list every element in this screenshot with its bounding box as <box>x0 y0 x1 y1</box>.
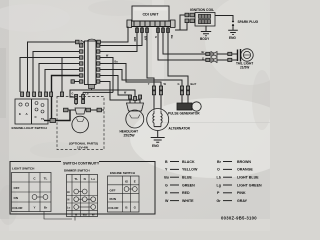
dimmer switch table <box>67 175 98 217</box>
wire optional lamp 2 branch <box>83 92 113 104</box>
svg-text:ENGINE SWITCH: ENGINE SWITCH <box>110 171 136 175</box>
svg-text:YELLOW: YELLOW <box>182 168 198 172</box>
svg-text:Bu: Bu <box>164 176 169 180</box>
legend row red <box>165 191 246 195</box>
light switch table <box>12 173 52 212</box>
svg-text:Y: Y <box>33 206 35 210</box>
wire bus row 4 <box>39 64 79 93</box>
spark plug gap <box>232 20 234 30</box>
svg-text:LIGHT BLUE: LIGHT BLUE <box>237 176 259 180</box>
svg-text:25/25W: 25/25W <box>124 134 135 138</box>
svg-text:PULSE GENERATOR: PULSE GENERATOR <box>168 112 200 116</box>
headlight label <box>120 130 139 138</box>
tail light bulb <box>238 49 254 62</box>
wire bus row 6 <box>52 76 80 122</box>
fuse F1 <box>87 39 96 44</box>
svg-text:O: O <box>217 168 220 172</box>
switch block pins <box>21 92 53 97</box>
svg-text:PINK: PINK <box>237 191 246 195</box>
alternator G1 <box>147 109 169 131</box>
wire strip r4 to alternator <box>100 64 161 87</box>
CDI connector bar <box>127 20 175 28</box>
legend row yellow <box>165 168 253 172</box>
alternator pins <box>152 86 162 95</box>
optional lamp pins <box>75 95 85 104</box>
tail pin c <box>228 52 232 55</box>
svg-text:E: E <box>134 180 136 184</box>
svg-text:LIGHT GREEN: LIGHT GREEN <box>237 183 262 187</box>
svg-text:BROWN: BROWN <box>237 160 251 164</box>
wire coil to spark plug <box>215 16 233 21</box>
strip row7 stub pin <box>71 80 74 83</box>
tee pin right a <box>86 108 91 112</box>
ground ENG (spark plug) <box>228 30 238 40</box>
svg-text:IGNITION COIL: IGNITION COIL <box>190 8 214 12</box>
svg-text:Lo: Lo <box>67 206 71 210</box>
fuse wire to CDI <box>28 27 129 93</box>
legend row white <box>165 199 248 203</box>
svg-text:12V-4W: 12V-4W <box>77 146 88 150</box>
connector strip right pins <box>97 44 100 83</box>
CDI pin 5 <box>162 28 165 33</box>
svg-text:G: G <box>177 82 179 86</box>
svg-text:R: R <box>165 191 168 195</box>
svg-text:TL: TL <box>44 177 48 181</box>
svg-text:Gr: Gr <box>217 199 222 203</box>
svg-text:Lo: Lo <box>91 177 95 181</box>
wire bus row 5 <box>45 70 79 93</box>
svg-text:Bu: Bu <box>170 35 174 39</box>
svg-text:G: G <box>165 183 168 187</box>
wire CDI pin4 to tail light lower <box>158 27 206 61</box>
svg-text:G: G <box>154 36 158 38</box>
wire strip tab to headlight mid <box>92 90 136 98</box>
wire CDI pin5 to tail light upper <box>163 27 206 55</box>
svg-text:E: E <box>19 112 21 116</box>
CDI unit box <box>132 6 169 21</box>
svg-text:0030Z-9B5-3100: 0030Z-9B5-3100 <box>221 216 257 221</box>
optional parts dashed box <box>57 97 104 150</box>
fuse pin left <box>76 40 80 44</box>
ignition coil pin a <box>185 13 189 17</box>
wire coil to body ground <box>205 26 207 32</box>
strip row7 left stub <box>73 81 79 83</box>
wire CDI to ignition coil <box>175 15 187 30</box>
fuse pin right <box>97 40 101 44</box>
kill wire vertical <box>61 58 63 93</box>
wire CDI pin3 to alternator <box>147 27 154 87</box>
wire alternator to ground <box>157 131 159 138</box>
legend row black <box>165 160 251 164</box>
svg-text:RED: RED <box>182 191 190 195</box>
svg-text:ENG: ENG <box>152 144 159 148</box>
wire CDI pin6 to pulse generator <box>168 27 188 87</box>
svg-text:SWITCH CONTINUITY: SWITCH CONTINUITY <box>63 161 100 165</box>
wire strip r3 branch down <box>100 58 113 93</box>
connector strip left pins <box>80 44 83 83</box>
svg-text:COLOR: COLOR <box>108 206 118 210</box>
svg-text:SPARK PLUG: SPARK PLUG <box>238 20 259 24</box>
svg-text:Lg: Lg <box>217 183 221 187</box>
svg-text:CDI UNIT: CDI UNIT <box>143 13 160 17</box>
wire tail connector to bulb <box>217 54 228 60</box>
tail pin d <box>228 58 232 61</box>
svg-text:ORANGE: ORANGE <box>237 168 253 172</box>
connector strip J1 <box>85 41 97 89</box>
svg-text:RUN: RUN <box>110 197 117 201</box>
optional lamp tee wire <box>64 109 104 111</box>
tail light label <box>236 62 253 70</box>
ground ENG (alternator) <box>151 138 165 149</box>
svg-text:ON: ON <box>14 196 19 200</box>
wire bus row 2 <box>33 52 79 93</box>
wire strip tab to optional lamp <box>70 89 92 106</box>
tail connector arrows <box>211 52 218 63</box>
pulse generator P1 <box>177 102 201 111</box>
fuse connector arrow <box>81 40 85 44</box>
svg-text:Bu/Y: Bu/Y <box>191 82 197 86</box>
legend row green <box>165 183 262 187</box>
svg-text:GREEN: GREEN <box>182 183 195 187</box>
svg-text:Br: Br <box>202 50 205 54</box>
kill wire pin <box>60 92 63 97</box>
svg-text:B/Y: B/Y <box>144 36 148 41</box>
tee pin left a <box>64 108 69 112</box>
svg-text:DIMMER SWITCH: DIMMER SWITCH <box>64 169 90 173</box>
ignition coil pin b <box>185 19 189 23</box>
headlight bulb <box>126 99 144 128</box>
wire block to optional lamp tee <box>56 110 71 121</box>
svg-text:N: N <box>68 198 70 202</box>
svg-text:Bu: Bu <box>83 213 87 217</box>
svg-text:COLOR: COLOR <box>12 206 22 210</box>
svg-text:ENGINE·LIGHT SWITCH: ENGINE·LIGHT SWITCH <box>12 126 48 130</box>
ignition coil T1 <box>195 13 215 27</box>
wire strip r6 to headlight left <box>100 76 130 98</box>
svg-text:G: G <box>202 56 204 60</box>
headlight pins <box>129 95 142 101</box>
svg-text:OFF: OFF <box>110 189 116 193</box>
svg-text:G: G <box>72 93 74 96</box>
wire CDI pin2 to connector row1 <box>100 27 142 46</box>
svg-text:LIGHT SWITCH: LIGHT SWITCH <box>12 167 35 171</box>
wire bus row 3 <box>20 58 79 93</box>
CDI pin 2 <box>141 28 144 33</box>
svg-text:Y: Y <box>148 82 150 86</box>
svg-text:W: W <box>165 199 169 203</box>
svg-text:BLUE: BLUE <box>182 176 192 180</box>
svg-text:W: W <box>92 213 95 217</box>
svg-text:N: N <box>84 177 86 181</box>
svg-text:21/5W: 21/5W <box>240 66 249 70</box>
pulse generator pins <box>180 86 189 95</box>
svg-text:OFF: OFF <box>14 186 20 190</box>
svg-text:ENG: ENG <box>229 36 236 40</box>
wire CDI pin1 to connector row2 <box>100 27 137 52</box>
switch continuity outer box <box>10 161 155 214</box>
wire strip r5 to pulse generator <box>100 70 182 87</box>
CDI pin 3 <box>146 28 149 33</box>
svg-text:GRAY: GRAY <box>237 199 248 203</box>
svg-text:BODY: BODY <box>200 37 210 41</box>
tail connector pin upper <box>206 52 210 55</box>
leader line tables <box>44 212 75 221</box>
tee pin right b <box>97 108 102 112</box>
svg-text:TL: TL <box>74 177 78 181</box>
svg-text:ALTERNATOR: ALTERNATOR <box>169 127 191 131</box>
svg-text:WHITE: WHITE <box>182 199 194 203</box>
switch block SW1 <box>15 99 48 124</box>
svg-text:B: B <box>165 160 168 164</box>
svg-text:Br: Br <box>217 160 222 164</box>
switch block output wire <box>44 120 56 122</box>
CDI pin 4 <box>157 28 160 33</box>
wire pins to pulse generator <box>182 95 188 103</box>
wire pins to alternator <box>154 95 161 110</box>
wire pins to tail bulb <box>232 54 238 60</box>
engine switch table <box>108 176 140 212</box>
svg-text:BLACK: BLACK <box>182 160 195 164</box>
block output pin <box>50 119 56 123</box>
CDI pin 1 <box>136 28 139 33</box>
svg-text:B/R: B/R <box>133 37 137 42</box>
ground BODY <box>200 32 211 42</box>
CDI pin 6 <box>167 28 170 33</box>
wire strip r7 to headlight right <box>100 82 140 102</box>
legend row blue <box>164 176 259 180</box>
optional lamp bulb <box>72 108 89 133</box>
svg-text:Hi: Hi <box>67 190 70 194</box>
tail connector pin lower <box>206 58 210 61</box>
